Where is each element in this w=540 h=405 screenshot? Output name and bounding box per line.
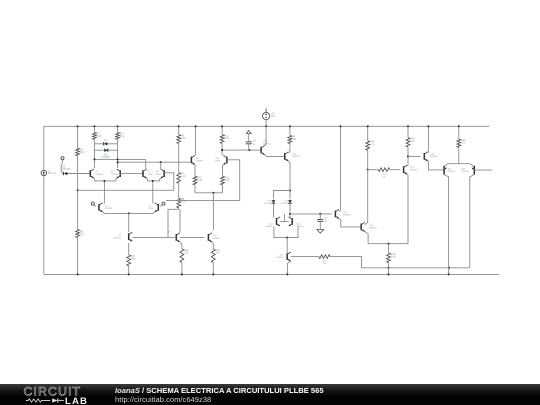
wire col290 top (289, 125, 291, 135)
svg-text:2N3904: 2N3904 (196, 161, 204, 163)
wire Q22 emitter leg (470, 175, 475, 268)
wire Q9 base (187, 161, 192, 163)
svg-text:2N3906: 2N3906 (296, 226, 304, 228)
svg-text:4.3k: 4.3k (97, 135, 102, 138)
wire Q19 emitter (406, 174, 409, 243)
svg-text:2N3904: 2N3904 (96, 174, 104, 176)
transistor Q19 (404, 165, 418, 174)
wire Q1 Q2 base link (120, 173, 143, 175)
wire col458 top (458, 125, 460, 139)
wire base bus y150 (221, 149, 261, 151)
wire R17 right (390, 169, 400, 171)
resistor R20 (457, 139, 466, 147)
svg-text:2N3904: 2N3904 (276, 257, 284, 259)
resistor R16 (366, 141, 376, 151)
ground symbol (317, 230, 324, 234)
wire R10 bottom (194, 185, 196, 193)
svg-text:100: 100 (382, 176, 386, 178)
svg-text:2N39: 2N39 (155, 174, 161, 176)
transistor Q10 (215, 155, 227, 164)
diode D11 (281, 200, 292, 205)
wire Q3 emitter join (147, 178, 153, 181)
svg-text:2N3904: 2N3904 (213, 238, 221, 240)
diode D9 (62, 165, 71, 175)
svg-text:SIN 1m: SIN 1m (48, 172, 56, 175)
svg-text:8.2k: 8.2k (80, 151, 85, 154)
svg-text:2N3904: 2N3904 (263, 143, 271, 145)
transistor Q14 (265, 217, 280, 228)
wire pair3 tail (128, 213, 130, 232)
wire col367 down (367, 150, 369, 222)
resistor R6 (177, 135, 187, 144)
svg-text:2N3904: 2N3904 (430, 156, 438, 158)
svg-text:560: 560 (292, 138, 297, 141)
wire Q18 collector (365, 223, 368, 225)
wire emitter bus y243 (368, 243, 408, 245)
svg-text:240: 240 (216, 252, 221, 255)
svg-text:Q8: Q8 (167, 232, 171, 234)
resistor R17 (378, 168, 390, 179)
resistor R10 (193, 176, 203, 185)
wire R11 bottom (222, 185, 224, 193)
svg-text:5.6k: 5.6k (224, 137, 229, 140)
power flag VCC (246, 130, 251, 141)
wire V4 to rail (265, 120, 267, 128)
wire Q10 collector (221, 125, 223, 134)
capacitor C7 (317, 214, 328, 229)
wire Q13 emitter down (288, 161, 291, 199)
wire Q1 emitter join (94, 178, 105, 181)
wire col94 down (93, 139, 95, 168)
wire col367 top (367, 125, 369, 140)
logo resistor zigzag (26, 399, 50, 402)
svg-text:2N39: 2N39 (148, 208, 154, 210)
svg-text:2N3906: 2N3906 (448, 171, 456, 173)
resistor R1 (93, 132, 102, 139)
transistor Q8 (167, 232, 180, 242)
wire Q4 collector (160, 162, 162, 169)
wire pair2 tail (152, 180, 154, 202)
wire Q6 collector (152, 202, 154, 204)
resistor R14 (211, 249, 220, 263)
resistor R12 (220, 135, 230, 144)
wire R14 bottom (212, 263, 214, 276)
svg-text:1u: 1u (253, 143, 256, 146)
transistor Q18 (361, 222, 377, 231)
wire Q21 emitter leg (444, 175, 450, 276)
transistor Q4 (155, 169, 164, 178)
voltage source V4 (263, 109, 276, 120)
svg-text:1N4148: 1N4148 (264, 203, 272, 205)
wire col178 mid (178, 144, 180, 173)
wire Q7 base bus (132, 236, 168, 238)
wire Q19 collector (406, 156, 409, 166)
resistor R11 (221, 176, 231, 185)
svg-text:12V: 12V (271, 115, 276, 118)
logo diode (52, 398, 57, 402)
resistor R19 (387, 253, 397, 263)
wire col408 mid (407, 147, 409, 157)
svg-text:2N3906: 2N3906 (265, 226, 273, 228)
wire Q3 collector (145, 159, 147, 169)
svg-text:4.7k: 4.7k (370, 143, 375, 146)
svg-text:2N3904: 2N3904 (292, 156, 300, 158)
transistor Q16 (335, 209, 351, 218)
svg-text:2N3904: 2N3904 (410, 169, 418, 171)
wire Q12 emitter to Q13 base (265, 155, 285, 157)
svg-text:12k: 12k (80, 232, 85, 235)
wire col178 top (178, 125, 180, 134)
wire emitter join bus (195, 192, 223, 194)
svg-text:240: 240 (184, 252, 189, 255)
wire Q10 emitter (222, 165, 224, 176)
wire pair4 tail (286, 238, 288, 253)
wire pair1 tail (103, 180, 105, 202)
wire Q16 base run (290, 213, 332, 215)
wire R20 to pair (458, 147, 460, 163)
wire R9 to Q13 (288, 144, 290, 153)
svg-text:1.2k: 1.2k (225, 179, 230, 182)
svg-text:2N39: 2N39 (215, 161, 221, 163)
wire left edge vertical (43, 126, 45, 274)
transistor Q11 (208, 233, 221, 242)
svg-text:1.2k: 1.2k (197, 179, 202, 182)
wire col408 top (407, 125, 409, 137)
svg-text:100: 100 (323, 263, 327, 265)
resistor R5 (127, 255, 136, 266)
wire Q12 collector (265, 126, 266, 145)
wire R17 left (368, 169, 379, 171)
terminal IN flag (61, 157, 64, 174)
resistor R4 (76, 230, 85, 238)
svg-text:1.2k: 1.2k (181, 175, 186, 178)
svg-text:2N3904: 2N3904 (343, 215, 351, 217)
wire Q16 collector (339, 125, 342, 211)
wire pair4 base link (280, 214, 289, 222)
svg-text:240: 240 (131, 258, 136, 261)
wire Q8 emitter (180, 243, 182, 249)
resistor R7 (177, 173, 187, 184)
transistor Q7 (113, 232, 132, 241)
wire Q17 base run (291, 256, 319, 258)
capacitor C5 (246, 140, 257, 150)
wire Q20 collector (427, 125, 429, 152)
transistor Q17 (276, 252, 291, 261)
wire Q20 emitter (428, 161, 444, 170)
svg-text:1N4148: 1N4148 (62, 168, 71, 171)
wire Q4 emitter join (153, 178, 161, 181)
transistor Q1 (90, 169, 104, 178)
wire col77 top (77, 125, 79, 148)
diode D7 (94, 139, 117, 145)
transistor Q15 (289, 217, 305, 228)
wire R13 bottom (181, 263, 183, 276)
wire Q11 emitter (212, 242, 213, 249)
svg-text:1u: 1u (324, 220, 327, 223)
wire D10 to pair (273, 204, 275, 218)
wire pair4 emitters (274, 227, 298, 239)
resistor R3 (76, 148, 86, 156)
wire feedback y190 (78, 189, 174, 191)
svg-text:2N3906: 2N3906 (461, 171, 469, 173)
svg-text:D7: D7 (104, 139, 108, 142)
wire Q5 collector (103, 202, 105, 204)
svg-text:2N3904: 2N3904 (105, 208, 113, 210)
resistor R9 (288, 136, 297, 144)
wire Q4 base out (164, 173, 174, 191)
svg-text:1N4148: 1N4148 (101, 156, 110, 159)
wire col94 top (93, 125, 95, 132)
transistor Q21 (444, 166, 456, 175)
wire col178 mid2 (178, 183, 180, 198)
diode D8 (94, 149, 117, 159)
wire Q7 emitter (128, 243, 130, 255)
transistor Q6 (148, 203, 158, 212)
wire Q2 emitter join (104, 178, 116, 181)
wire R15 to corner (330, 257, 469, 269)
svg-text:4.3k: 4.3k (181, 201, 186, 204)
transistor Q20 (424, 152, 438, 161)
wire Q17 emitter (286, 261, 290, 275)
wire D11 to pair (289, 204, 291, 218)
wire col117 top (117, 125, 119, 132)
svg-text:2N39: 2N39 (148, 174, 154, 176)
wire input to Q1 base (67, 173, 90, 175)
wire Q8 base link (168, 236, 205, 238)
wire Q16 emitter to Q18 (339, 219, 361, 227)
terminal T2 (91, 202, 96, 207)
terminal T3 (160, 202, 165, 207)
svg-text:6.2k: 6.2k (410, 140, 415, 143)
wire pair3 emitter bus (103, 212, 155, 215)
wire pair5 top bar (445, 164, 474, 167)
svg-text:5.6k: 5.6k (391, 256, 396, 259)
wire R19 bottom (387, 263, 389, 276)
wire R8 to Q8 loop (168, 208, 180, 238)
transistor Q3 (143, 169, 154, 178)
transistor Q12 (261, 141, 271, 155)
wire output right (474, 169, 492, 171)
wire Q10 base out (166, 160, 240, 201)
resistor R2 (116, 132, 125, 139)
wire Q18 emitter (365, 232, 368, 244)
transistor Q13 (285, 152, 301, 161)
wire top supply rail (44, 125, 489, 127)
wire diode branch (274, 191, 291, 200)
wire base branch y156 (408, 155, 421, 157)
svg-text:12k: 12k (461, 142, 466, 145)
wire col117 down (117, 139, 119, 168)
transistor Q9 (191, 155, 204, 164)
diode D10 (264, 200, 275, 205)
resistor R15 (319, 255, 330, 265)
svg-text:2N3904: 2N3904 (113, 237, 121, 239)
wire R19 top (388, 244, 390, 253)
transistor Q5 (99, 203, 113, 212)
transistor Q2 (111, 169, 121, 178)
wire R5 bottom (128, 266, 130, 276)
resistor R13 (180, 249, 189, 263)
resistor R18 (406, 138, 416, 147)
svg-text:4.3k: 4.3k (120, 135, 125, 138)
wire R12 to Q10 (221, 144, 223, 156)
svg-text:2N3904: 2N3904 (111, 174, 119, 176)
wire node B horizontal (117, 161, 187, 163)
svg-text:1.4k: 1.4k (181, 137, 186, 140)
wire Q9 collector (195, 125, 197, 155)
svg-text:LAB: LAB (65, 396, 88, 405)
wire bottom ground rail (44, 273, 499, 275)
svg-text:1N4148: 1N4148 (281, 203, 289, 205)
current source I1 (41, 170, 56, 176)
wire col77 mid (77, 156, 79, 230)
wire node A horizontal (93, 158, 145, 160)
wire col77 bottom (77, 238, 79, 276)
svg-text:2N3904: 2N3904 (369, 228, 377, 230)
resistor R8 (177, 198, 187, 208)
wire Q11 collector riser (212, 193, 214, 230)
wire Q9 emitter (194, 165, 196, 176)
transistor Q22 (461, 166, 474, 175)
